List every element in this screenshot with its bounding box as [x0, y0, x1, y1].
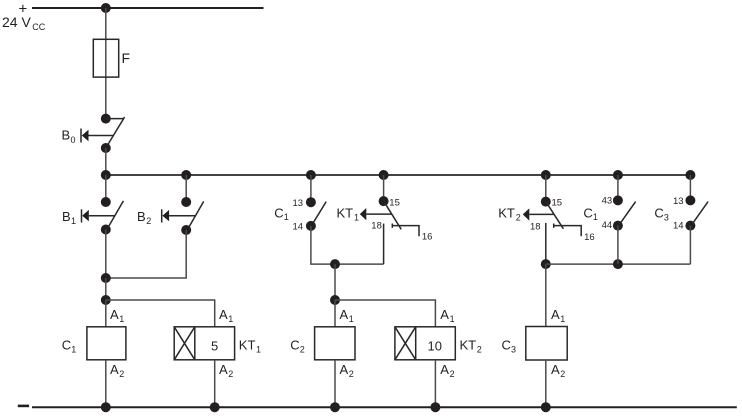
contact C1 43/44 (NO): [583, 195, 635, 231]
svg-text:16: 16: [422, 232, 433, 243]
pushbutton B1 (NO): [62, 197, 123, 235]
svg-text:44: 44: [602, 220, 613, 231]
wire: bus to KT1 contact: [383, 175, 385, 201]
svg-text:0: 0: [71, 135, 76, 145]
supply label +24Vcc: [2, 1, 46, 33]
wire: KT1 18 terminal down: [383, 224, 385, 265]
svg-text:2: 2: [228, 369, 233, 379]
svg-text:A: A: [219, 307, 228, 322]
node: middle junction: [330, 259, 340, 269]
wire: split right and down to KT1 coil: [106, 300, 215, 327]
pushbutton B0 (NC): [62, 114, 125, 153]
wire: C3 14 down and left to right lower bus: [689, 226, 691, 265]
svg-text:A: A: [219, 362, 228, 377]
node: bus/B1: [101, 170, 111, 180]
wire: bus to KT2 contact: [545, 175, 547, 202]
pushbutton B2 (NO): [137, 197, 204, 235]
wire: C1 14 down and right to middle junction: [311, 226, 384, 264]
svg-text:2: 2: [300, 345, 305, 355]
node: bottom rail / C3 coil: [541, 402, 551, 412]
svg-text:A: A: [110, 362, 119, 377]
svg-text:1: 1: [228, 314, 233, 324]
svg-text:1: 1: [354, 212, 359, 222]
wire: bus to C1 contact: [310, 175, 312, 202]
wire: C1 coil to bottom rail: [105, 360, 107, 407]
svg-text:C: C: [62, 338, 71, 353]
node: right junction at KT2 branch: [541, 259, 551, 269]
node: bus/C1 43: [613, 170, 623, 180]
node: bus/B2: [181, 170, 191, 180]
svg-text:1: 1: [256, 345, 261, 355]
timed contact KT2 15/18/16: [498, 197, 594, 243]
svg-text:1: 1: [71, 345, 76, 355]
svg-text:B: B: [62, 209, 71, 224]
svg-text:1: 1: [593, 212, 598, 222]
svg-text:14: 14: [673, 221, 684, 232]
svg-text:KT: KT: [460, 338, 477, 353]
contact C3 13/14 (NO): [654, 195, 708, 231]
top supply rail (+24V): [32, 7, 264, 9]
coil C1: [62, 307, 126, 379]
svg-text:1: 1: [284, 212, 289, 222]
svg-text:10: 10: [428, 339, 442, 354]
bottom supply rail (0V): [32, 406, 737, 408]
node: B1/B2 junction: [101, 273, 111, 283]
wire: KT2 coil to bottom rail: [434, 360, 436, 407]
timed contact KT1 15/18/16: [337, 196, 433, 243]
svg-text:C: C: [583, 205, 592, 220]
node: bottom rail / KT2 coil: [430, 402, 440, 412]
svg-text:KT: KT: [239, 338, 256, 353]
svg-text:2: 2: [349, 369, 354, 379]
svg-text:C: C: [274, 205, 283, 220]
node: bus/C3 13: [685, 170, 695, 180]
svg-text:2: 2: [560, 369, 565, 379]
node: bus/KT1 15: [379, 170, 389, 180]
fuse F: [93, 39, 130, 77]
wire: bus to B2: [185, 175, 187, 202]
svg-text:A: A: [340, 362, 349, 377]
svg-text:KT: KT: [337, 205, 354, 220]
svg-text:18: 18: [371, 221, 382, 232]
wire: C2 coil to bottom rail: [334, 360, 336, 407]
wire: KT1 coil to bottom rail: [214, 360, 216, 407]
wire: bus to C3 contact: [689, 175, 691, 200]
wire: middle junction down to coil split: [334, 264, 336, 300]
svg-text:1: 1: [71, 216, 76, 226]
svg-text:C: C: [290, 338, 299, 353]
wire: bus to B1: [105, 175, 107, 202]
svg-text:5: 5: [211, 339, 218, 354]
contact C1 13/14 (NO): [274, 197, 326, 232]
node: junction top rail / fuse branch: [101, 3, 111, 13]
node: bus/KT2 15: [541, 170, 551, 180]
wire: top rail to B0 via fuse: [105, 8, 107, 119]
svg-text:B: B: [137, 209, 146, 224]
svg-text:C: C: [654, 205, 663, 220]
svg-text:1: 1: [560, 314, 565, 324]
svg-text:A: A: [110, 307, 119, 322]
svg-text:F: F: [122, 50, 131, 66]
wire: split to C1 coil: [105, 300, 107, 327]
node: bottom rail / C2 coil: [330, 402, 340, 412]
svg-text:1: 1: [349, 314, 354, 324]
svg-text:A: A: [551, 362, 560, 377]
svg-text:43: 43: [602, 195, 613, 206]
svg-text:A: A: [551, 307, 560, 322]
wire: bus to C1 43/44 contact: [617, 175, 619, 200]
wire: KT2 18 down through junction to C3 coil: [545, 223, 547, 264]
wire: right lower bus: [546, 263, 691, 265]
svg-text:15: 15: [389, 198, 400, 209]
wire: C1 44 down to right lower bus: [617, 226, 619, 265]
wire: right junction down to C3 coil: [545, 264, 547, 326]
wire: split to C2 coil: [334, 300, 336, 327]
wire: B2 down and left to junction: [106, 230, 186, 278]
svg-text:1: 1: [450, 314, 455, 324]
svg-text:18: 18: [530, 221, 541, 232]
timer coil KT2 (value 10): [395, 307, 482, 379]
node: C1/KT1 coil split: [101, 295, 111, 305]
svg-text:14: 14: [293, 222, 304, 233]
svg-text:16: 16: [584, 232, 595, 243]
node: bus/C1 13: [306, 170, 316, 180]
svg-text:2: 2: [516, 212, 521, 222]
wire: B1 down to junction: [105, 230, 107, 279]
svg-text:C: C: [502, 338, 511, 353]
svg-text:A: A: [440, 362, 449, 377]
svg-text:A: A: [440, 307, 449, 322]
wire: split right and down to KT2 coil: [335, 300, 435, 327]
svg-text:3: 3: [664, 212, 669, 222]
svg-text:B: B: [62, 128, 71, 143]
main bus rail: [106, 174, 691, 176]
svg-text:1: 1: [119, 314, 124, 324]
supply label minus: [18, 405, 29, 408]
svg-text:CC: CC: [32, 22, 45, 32]
svg-text:13: 13: [673, 196, 684, 207]
timer coil KT1 (value 5): [174, 307, 261, 379]
svg-text:13: 13: [293, 198, 304, 209]
coil C2: [290, 307, 355, 379]
svg-text:KT: KT: [498, 205, 515, 220]
svg-text:2: 2: [146, 216, 151, 226]
svg-text:2: 2: [477, 345, 482, 355]
svg-text:A: A: [340, 307, 349, 322]
svg-text:2: 2: [450, 369, 455, 379]
node: right junction at C1 43/44 branch: [613, 259, 623, 269]
svg-text:24 V: 24 V: [2, 14, 31, 30]
wire: B0 to main bus: [105, 148, 107, 175]
node: bottom rail / KT1 coil: [210, 402, 220, 412]
node: bottom rail / C1 coil: [101, 402, 111, 412]
coil C3: [502, 307, 568, 379]
node: C2/KT2 coil split: [330, 295, 340, 305]
wire: C3 coil to bottom rail: [545, 360, 547, 407]
wire: junction down to coil split: [105, 278, 107, 300]
svg-text:15: 15: [552, 198, 563, 209]
svg-text:3: 3: [511, 345, 516, 355]
svg-text:2: 2: [119, 369, 124, 379]
